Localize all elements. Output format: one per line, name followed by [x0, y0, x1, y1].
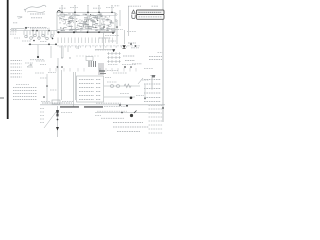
pin 14 — [115, 14, 117, 22]
note column — [149, 106, 163, 134]
wire — [25, 28, 49, 31]
bus — [57, 44, 140, 46]
op-amp U1 — [57, 12, 115, 32]
wire ticks — [50, 68, 136, 72]
label — [115, 5, 120, 7]
header pins — [89, 61, 96, 67]
capacitor C1 — [14, 38, 47, 42]
note text — [132, 57, 162, 69]
node REV — [132, 10, 135, 19]
header box — [86, 57, 93, 61]
junction — [25, 27, 50, 32]
wire — [11, 29, 57, 31]
label — [30, 28, 48, 30]
label — [158, 52, 164, 54]
wire dark segment — [84, 106, 103, 108]
junction — [58, 31, 100, 33]
diode D2 — [56, 127, 59, 131]
relay K1 — [77, 76, 104, 102]
fuse F1 — [52, 100, 60, 104]
junction — [29, 38, 57, 45]
transistor Q1 — [59, 15, 112, 30]
note rows — [101, 118, 149, 131]
transistor Q4 — [56, 110, 59, 120]
bus — [95, 111, 160, 112]
label — [57, 10, 60, 12]
junction — [130, 97, 133, 100]
wire — [104, 78, 143, 97]
wire dark segment — [60, 106, 79, 108]
wire — [0, 97, 4, 99]
top text block — [99, 63, 103, 75]
transistor Q2 — [24, 31, 57, 45]
wire — [76, 55, 100, 57]
junction — [43, 85, 48, 98]
node CLK — [61, 5, 113, 13]
connector J1 — [137, 10, 165, 15]
wire — [51, 46, 79, 58]
wire — [7, 0, 9, 119]
junction — [135, 45, 137, 47]
ground — [37, 56, 39, 58]
node labels — [59, 7, 114, 10]
switch S1 — [27, 64, 33, 67]
wire — [57, 31, 115, 33]
label — [95, 115, 101, 117]
wire diagonal — [44, 112, 56, 128]
note rows — [144, 80, 161, 102]
junction — [121, 107, 164, 113]
wire stubs — [58, 38, 112, 44]
junction — [119, 104, 128, 107]
transistor Q3 — [130, 111, 137, 118]
node row — [48, 57, 90, 58]
wire — [144, 84, 146, 100]
resistor R5 — [122, 56, 136, 65]
inductor L1 — [111, 84, 132, 88]
junction — [103, 26, 132, 45]
resistor R1 — [59, 14, 115, 33]
label — [95, 49, 113, 51]
node VCC — [128, 5, 159, 7]
bus — [40, 102, 165, 107]
terminal block TB1 — [151, 75, 156, 90]
wire — [57, 106, 59, 137]
labels — [105, 65, 127, 78]
node B — [13, 14, 47, 28]
wire — [58, 58, 76, 107]
wire — [46, 74, 48, 104]
node GND label — [30, 59, 44, 61]
label — [136, 95, 144, 97]
resistor network RN1 — [20, 34, 115, 37]
label — [131, 47, 139, 49]
connector J2 — [137, 15, 165, 20]
label — [107, 80, 149, 94]
note block — [13, 85, 37, 100]
capacitor C2 — [99, 30, 136, 44]
wire ticks — [60, 46, 126, 48]
note rows — [11, 61, 47, 78]
wire — [162, 0, 164, 122]
diode D3 — [112, 49, 115, 52]
wire — [95, 6, 128, 50]
junction — [144, 97, 146, 99]
bus — [45, 67, 140, 71]
capacitor C3 — [107, 52, 121, 63]
diode D1 — [123, 45, 126, 49]
label — [40, 73, 57, 102]
pin labels — [40, 109, 72, 123]
node A — [17, 5, 46, 18]
junction — [57, 66, 132, 68]
wire — [37, 45, 39, 57]
node IN1 — [10, 30, 17, 34]
